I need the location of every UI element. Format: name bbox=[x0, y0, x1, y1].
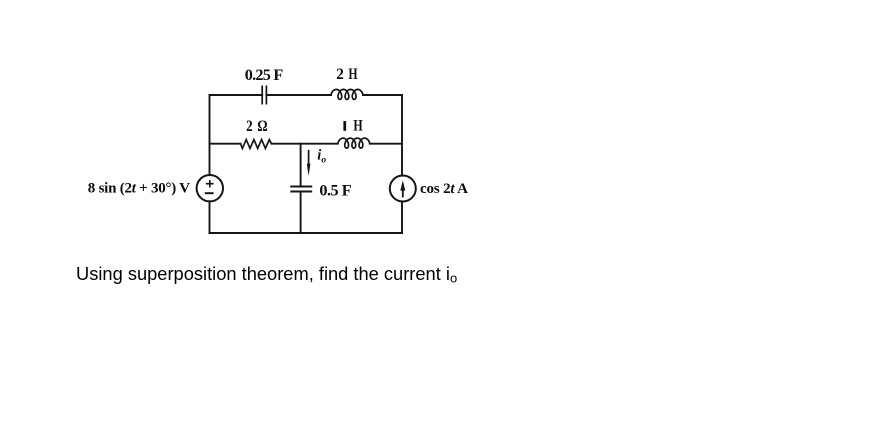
svg-text:2: 2 bbox=[246, 117, 253, 135]
capacitor C=0.5F plates bbox=[290, 187, 312, 192]
svg-text:Using superposition theorem, f: Using superposition theorem, find the cu… bbox=[76, 263, 457, 285]
wire middle branch upper: middle wire down to 0.5F cap bbox=[300, 144, 302, 187]
svg-text:8 sin (2t + 30°) V: 8 sin (2t + 30°) V bbox=[88, 180, 190, 196]
wire left rail upper: middle wire to voltage source bbox=[209, 144, 211, 175]
wire right rail: middle wire to current source bbox=[401, 144, 403, 176]
wire left rail lower: voltage source to bottom rail bbox=[209, 201, 211, 233]
svg-text:cos 2t A: cos 2t A bbox=[420, 181, 468, 197]
voltage source minus sign bbox=[205, 192, 214, 194]
wire middle-center: resistor to 1H inductor through node bbox=[272, 143, 338, 145]
current source IS circle bbox=[390, 176, 416, 202]
svg-text:Ω: Ω bbox=[257, 117, 267, 135]
wire bottom rail bbox=[210, 232, 403, 234]
wire top-right: from 2H inductor to right rail down to middle wire bbox=[363, 95, 402, 144]
voltage source VS circle bbox=[197, 175, 223, 201]
svg-text:io: io bbox=[317, 148, 326, 166]
svg-text:0.5 F: 0.5 F bbox=[319, 182, 351, 200]
current source arrow (up) bbox=[400, 180, 405, 197]
wire top-left: top rail from left corner to 0.25F cap bbox=[210, 95, 263, 144]
inductor L=1H coil bbox=[338, 138, 370, 148]
inductor L=2H coil bbox=[331, 89, 363, 99]
current io arrow (down) bbox=[307, 150, 311, 176]
svg-text:2: 2 bbox=[336, 65, 344, 83]
svg-text:H: H bbox=[353, 117, 363, 135]
wire middle-right: 1H inductor to right rail bbox=[370, 143, 402, 145]
resistor R=2ohm zigzag bbox=[241, 140, 272, 149]
wire middle-left: left rail to 2ohm resistor bbox=[210, 143, 241, 145]
capacitor C=0.25F plates bbox=[262, 86, 266, 105]
svg-text:H: H bbox=[348, 65, 357, 83]
wire top-mid: between 0.25F cap and 2H inductor bbox=[266, 94, 331, 96]
voltage source plus sign bbox=[206, 180, 214, 187]
wire middle branch lower: 0.5F cap to bottom rail bbox=[300, 192, 302, 233]
wire right rail lower: current source to bottom rail bbox=[401, 201, 403, 233]
svg-text:0.25 F: 0.25 F bbox=[245, 66, 284, 84]
label 1 H bbox=[343, 121, 346, 131]
